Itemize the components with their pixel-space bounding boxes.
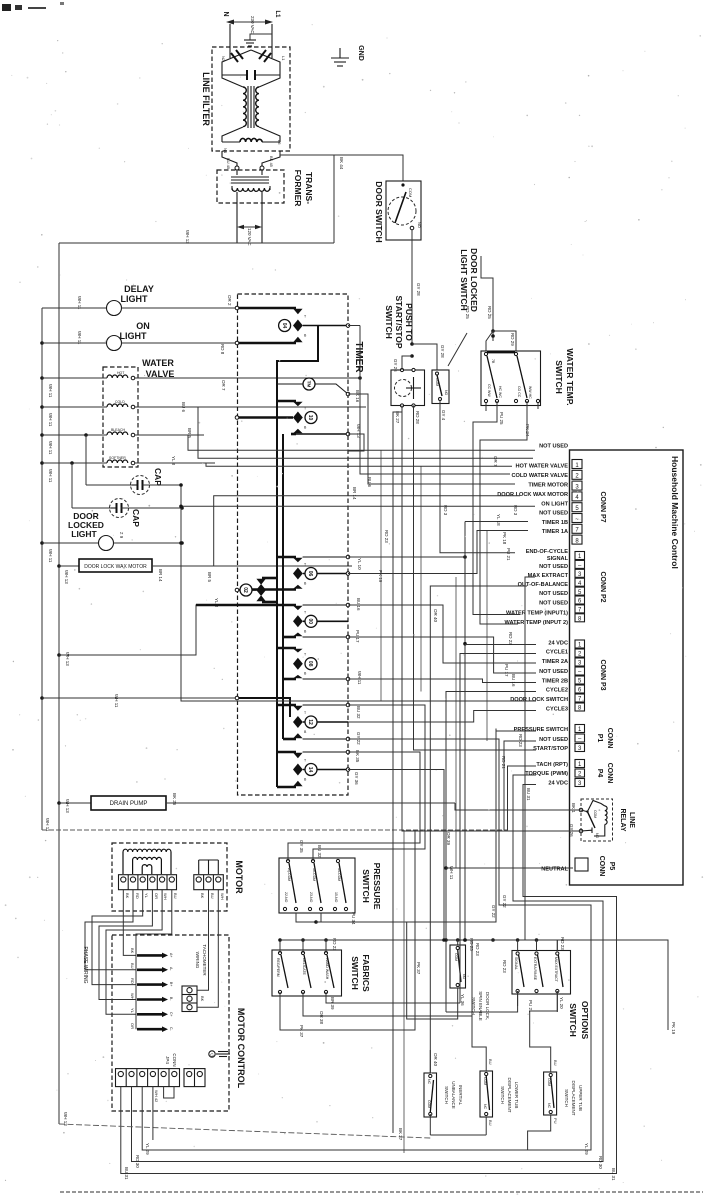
svg-text:P5: P5	[608, 862, 615, 871]
svg-text:YL: YL	[144, 893, 149, 899]
svg-text:24 VDC: 24 VDC	[548, 641, 568, 647]
door locked light switch box	[432, 370, 449, 404]
delay light label	[121, 284, 154, 304]
timer cam contact 04	[237, 308, 348, 361]
water valve dashed enclosure	[103, 367, 138, 467]
svg-text:CYCLE2: CYCLE2	[546, 688, 568, 694]
svg-text:NO: NO	[595, 833, 599, 839]
wire L1 drop	[271, 24, 273, 48]
connector P7 pins	[572, 460, 582, 545]
wire timer motor BK16 to HMC row	[348, 394, 515, 484]
bottom page separator	[60, 1191, 703, 1193]
svg-text:COM: COM	[454, 953, 458, 961]
wire N drop	[229, 24, 231, 48]
svg-text:8: 8	[575, 538, 579, 544]
water valve SOFTNER solenoid	[40, 456, 215, 465]
svg-text:B: B	[304, 629, 307, 633]
svg-text:FABRICS: FABRICS	[361, 954, 371, 992]
connector P5 label	[598, 856, 615, 877]
svg-text:T: T	[304, 653, 307, 657]
wire texture vertical b	[420, 466, 422, 691]
svg-text:NOT USED: NOT USED	[539, 601, 568, 607]
svg-text:DRAIN PUMP: DRAIN PUMP	[110, 801, 148, 807]
svg-text:GY 28: GY 28	[440, 345, 445, 358]
timer cam contact 08	[277, 648, 348, 679]
svg-text:PK 37: PK 37	[299, 1025, 304, 1038]
svg-text:COM: COM	[427, 1100, 431, 1108]
wire WH11 into timer	[40, 696, 237, 700]
svg-text:RD 30: RD 30	[598, 1156, 603, 1169]
svg-text:SOFTNER: SOFTNER	[109, 456, 126, 460]
svg-text:SWITCH: SWITCH	[444, 1086, 449, 1104]
wire label YL 20	[557, 991, 564, 1012]
wire push-switch to line relay GY26	[402, 406, 581, 832]
svg-text:TIMER 2A: TIMER 2A	[542, 659, 568, 665]
push to start/stop switch box	[391, 370, 425, 406]
svg-text:RD 3: RD 3	[513, 505, 518, 516]
svg-text:T: T	[304, 759, 307, 763]
svg-text:120 VAC: 120 VAC	[247, 228, 252, 246]
door switch mechanism	[388, 183, 422, 229]
svg-text:CONN: CONN	[598, 856, 605, 877]
svg-text:NC: NC	[547, 1103, 551, 1109]
node N terminal label	[222, 11, 229, 16]
svg-text:JP4: JP4	[165, 1056, 170, 1064]
wire filter to transformer	[222, 151, 280, 169]
svg-text:SIGNAL: SIGNAL	[547, 556, 569, 562]
svg-text:BK 1: BK 1	[571, 803, 576, 813]
svg-text:NO: NO	[462, 974, 466, 980]
wire texture vertical e	[403, 830, 405, 1153]
wire timer BU32 to pressure switch pole2	[313, 705, 425, 861]
svg-text:START/STOP: START/STOP	[394, 295, 404, 348]
pin BK 45	[260, 156, 274, 170]
svg-text:BU 6: BU 6	[367, 477, 372, 488]
svg-text:DISPLACEMENT: DISPLACEMENT	[507, 1077, 512, 1112]
svg-text:HOT WATER VALVE: HOT WATER VALVE	[515, 464, 568, 470]
svg-text:7B: 7B	[491, 359, 495, 364]
options switch box	[512, 951, 571, 995]
delay light lamp	[42, 301, 237, 316]
svg-text:WH 11: WH 11	[449, 866, 454, 880]
node L1 terminal label	[274, 10, 280, 18]
svg-text:NOT USED: NOT USED	[539, 737, 568, 743]
wire timer GY36 to RD23 bus	[348, 770, 444, 941]
svg-text:24 VDC: 24 VDC	[548, 781, 568, 787]
motor lead wires into motor control	[85, 890, 172, 1029]
wire label BU lower	[486, 1117, 493, 1135]
svg-text:WH 13: WH 13	[64, 570, 69, 584]
wire BK27 dash run	[59, 1124, 430, 1138]
upper tub displacement switch box	[544, 1072, 557, 1115]
door locked light switch label	[459, 248, 479, 312]
svg-text:NOT USED: NOT USED	[539, 669, 568, 675]
door lock spin enable switch box	[450, 945, 466, 988]
wire CYCLE2 row	[444, 692, 536, 1013]
line filter common-mode choke	[222, 75, 280, 128]
capacitor C1	[84, 433, 181, 494]
svg-text:NC: NC	[483, 1104, 487, 1110]
wire label WH 42	[154, 1087, 174, 1103]
svg-text:COM: COM	[483, 1077, 487, 1085]
svg-text:14: 14	[307, 767, 313, 773]
wire CYCLE1 row	[460, 654, 536, 1004]
svg-text:WH: WH	[220, 893, 225, 900]
svg-text:00: 00	[307, 619, 313, 625]
ground (earth) symbol at L1	[244, 34, 272, 46]
svg-text:RD 8: RD 8	[220, 344, 225, 355]
wire hot feed to door switch (BK 44)	[280, 152, 403, 243]
pressure switch label	[361, 863, 382, 910]
door locked light switch leader line	[448, 333, 467, 366]
wire NEUTRAL row	[446, 867, 573, 869]
wire drain pump to line relay BK1	[455, 803, 581, 810]
svg-text:CONN P3: CONN P3	[599, 659, 606, 690]
svg-text:CC WW: CC WW	[487, 384, 491, 397]
water valve HOT solenoid	[40, 371, 360, 380]
wire timer WH11 to TIMER 2B row	[348, 679, 536, 683]
wire OUT-OF-BALANCE row / OR 40 drop	[430, 586, 527, 1073]
svg-text:BU: BU	[210, 893, 215, 899]
svg-text:NOT USED: NOT USED	[539, 511, 568, 517]
svg-text:GY 28: GY 28	[416, 283, 421, 296]
svg-text:UPPER TUB: UPPER TUB	[578, 1085, 583, 1111]
svg-text:LIGHT: LIGHT	[120, 331, 147, 341]
door lock spin enable switch label	[471, 991, 490, 1021]
svg-text:START/STOP: START/STOP	[533, 746, 568, 752]
timer internal bus A	[277, 326, 318, 788]
svg-text:10: 10	[307, 415, 313, 421]
svg-text:WW HC: WW HC	[528, 386, 532, 399]
svg-text:L5: L5	[277, 140, 282, 145]
svg-text:YL: YL	[130, 1008, 135, 1014]
svg-text:B: B	[304, 582, 307, 586]
svg-text:BU: BU	[488, 1120, 493, 1126]
svg-text:BK 27: BK 27	[395, 411, 400, 424]
svg-text:T: T	[304, 610, 307, 614]
pressure switch box	[279, 858, 355, 913]
wire timer YL10 to TIMER 1B row	[348, 522, 528, 559]
wire water temp PK24 to WATER TEMP INPUT 2	[480, 401, 527, 624]
svg-text:SWITCH: SWITCH	[384, 305, 394, 339]
svg-text:NO: NO	[444, 390, 448, 396]
svg-text:NOT USED: NOT USED	[539, 564, 568, 570]
svg-text:WIRING: WIRING	[195, 952, 200, 969]
door locked light label	[68, 511, 104, 539]
transformer label	[293, 170, 314, 207]
motor strip2 wire labels	[200, 893, 225, 900]
svg-text:RD 29: RD 29	[510, 333, 515, 346]
svg-text:PK 37: PK 37	[416, 962, 421, 975]
svg-text:NOT USED: NOT USED	[539, 444, 568, 450]
wire timer GY22 nest loop YL29	[142, 739, 591, 1150]
wire door switch NO down (GY 28)	[411, 230, 413, 344]
svg-text:BR 5: BR 5	[207, 572, 212, 583]
svg-text:COLD WATER VALVE: COLD WATER VALVE	[511, 473, 568, 479]
svg-text:FORMER: FORMER	[293, 170, 303, 207]
svg-text:HC WC: HC WC	[498, 386, 502, 398]
svg-text:B: B	[304, 730, 307, 734]
svg-text:DOOR LOCK WAX MOTOR: DOOR LOCK WAX MOTOR	[84, 564, 147, 570]
svg-text:OR 7: OR 7	[493, 456, 498, 467]
phase winding segment C+	[130, 1008, 173, 1017]
svg-text:21-COM: 21-COM	[287, 868, 291, 881]
inertial unbalance switch box	[424, 1073, 437, 1117]
svg-text:L1: L1	[281, 56, 286, 61]
svg-text:BU 6: BU 6	[181, 402, 186, 413]
push switch pins	[400, 368, 415, 407]
svg-text:BK: BK	[130, 948, 135, 954]
line relay label	[619, 808, 635, 831]
svg-text:≠ 9: ≠ 9	[119, 532, 124, 539]
svg-text:OR: OR	[130, 1023, 135, 1029]
wire junction WH13 tap	[57, 605, 296, 657]
timer cam contact 00	[196, 605, 348, 637]
motor terminal strip 1	[119, 875, 177, 890]
svg-text:WH 13: WH 13	[185, 230, 190, 244]
svg-text:RD 23: RD 23	[502, 960, 507, 973]
svg-text:WATER TEMP (INPUT 2): WATER TEMP (INPUT 2)	[505, 620, 569, 626]
svg-text:NC: NC	[427, 1079, 431, 1085]
svg-text:GY 4: GY 4	[441, 410, 446, 421]
svg-text:ON: ON	[136, 321, 150, 331]
options switch label	[568, 1001, 590, 1040]
wire RD25 riser stub	[481, 256, 493, 303]
svg-text:BK: BK	[125, 893, 130, 899]
timer left edge pins	[235, 306, 239, 700]
wire bleach valve to HMC row	[188, 435, 535, 450]
timer internal bus B	[282, 434, 284, 739]
wire timer BK35 to pressure switch pole1	[288, 752, 420, 861]
wire RD 25 tap dot	[491, 334, 495, 338]
line filter dashed enclosure	[212, 47, 290, 151]
scan artifact top-left	[2, 2, 64, 11]
wire bus x465 vertical	[463, 522, 467, 941]
wire PRESSURE SWITCH row	[496, 730, 536, 732]
svg-text:RD 25: RD 25	[465, 306, 470, 319]
wire options feed dots	[491, 937, 565, 951]
svg-text:RD 23: RD 23	[508, 632, 513, 645]
svg-text:BK 26: BK 26	[172, 793, 177, 806]
svg-text:A-: A-	[169, 967, 173, 971]
svg-text:BK: BK	[200, 996, 205, 1002]
fabrics switch label	[350, 954, 371, 992]
svg-text:OR 2: OR 2	[227, 295, 232, 306]
drain pump	[57, 796, 455, 810]
svg-text:TACH (RPT): TACH (RPT)	[536, 762, 568, 768]
svg-text:14-COM: 14-COM	[337, 868, 341, 881]
upper tub displacement switch label	[564, 1080, 583, 1115]
wire DLSE feed dots	[456, 938, 474, 951]
wire push-switch RD28 to START/STOP row	[414, 406, 537, 751]
conn JP4 label	[165, 1053, 177, 1066]
svg-text:DOOR SWITCH: DOOR SWITCH	[374, 181, 384, 242]
wire JP4 pin4 drop	[152, 1087, 154, 1140]
water valve label	[142, 358, 174, 379]
wire TORQUE nest loop	[132, 775, 604, 1162]
svg-text:EXTRA RINSE: EXTRA RINSE	[533, 957, 537, 981]
wire timer PK19 to TIMER 1A row	[348, 531, 528, 574]
svg-text:SPIN ENABLE: SPIN ENABLE	[478, 991, 483, 1021]
svg-text:YL 29: YL 29	[145, 1143, 150, 1155]
svg-text:DELICATE: DELICATE	[302, 958, 306, 976]
timer right edge pins	[346, 324, 350, 772]
svg-text:LIGHT SWITCH: LIGHT SWITCH	[459, 249, 469, 310]
pin BU 45	[226, 158, 239, 170]
door lock wax motor box	[57, 559, 352, 572]
svg-text:23-NO: 23-NO	[309, 892, 313, 903]
wire left bus WH 11 vertical	[41, 308, 43, 830]
line filter capacitor network	[222, 48, 280, 80]
svg-text:PRESSURE: PRESSURE	[372, 863, 382, 910]
water valve BLEACH solenoid	[40, 428, 204, 437]
svg-text:LINE: LINE	[628, 812, 635, 828]
svg-text:RD 23: RD 23	[384, 530, 389, 543]
svg-text:HOT: HOT	[117, 371, 125, 375]
wire texture vertical c	[455, 577, 457, 868]
svg-text:1: 1	[575, 463, 579, 469]
svg-text:RD 23: RD 23	[560, 937, 565, 950]
svg-text:BU: BU	[130, 963, 135, 969]
svg-text:SWITCH: SWITCH	[500, 1086, 505, 1104]
svg-text:SWITCH: SWITCH	[564, 1089, 569, 1107]
svg-text:RD: RD	[135, 893, 140, 899]
svg-text:CAP: CAP	[153, 468, 163, 486]
motor winding loops	[123, 849, 171, 874]
timer cam contact 12	[237, 698, 348, 739]
svg-text:OR 40: OR 40	[433, 609, 438, 623]
svg-text:12: 12	[307, 719, 313, 725]
water valve COLD solenoid	[40, 400, 366, 409]
svg-text:TIMER 1B: TIMER 1B	[542, 520, 568, 526]
svg-text:RD 3: RD 3	[443, 505, 448, 516]
svg-text:COLD: COLD	[115, 400, 125, 404]
svg-text:T: T	[304, 711, 307, 715]
svg-text:BLEACH: BLEACH	[111, 428, 125, 432]
svg-text:TIMER: TIMER	[353, 341, 364, 373]
svg-text:CO CC: CO CC	[517, 386, 521, 398]
fabrics switch box	[272, 950, 342, 996]
svg-text:RD 30: RD 30	[135, 1155, 140, 1168]
svg-text:TRANS-: TRANS-	[304, 172, 314, 204]
door locked light lamp	[40, 536, 184, 551]
svg-text:YL 8: YL 8	[171, 456, 176, 466]
wire 24 VDC row	[465, 644, 536, 646]
svg-text:MAX EXTRACT: MAX EXTRACT	[528, 573, 569, 579]
svg-text:TORQUE (PWM): TORQUE (PWM)	[525, 771, 568, 777]
svg-text:HAND WASH: HAND WASH	[325, 958, 329, 980]
wire 24VDC nest loop	[121, 785, 617, 1174]
svg-text:SWITCH: SWITCH	[361, 869, 371, 903]
wire inertial to lower tub bottom link	[430, 1134, 486, 1136]
wire RD23 bus to switches	[280, 938, 557, 950]
wire timer BU16 to TIMER 2A row	[348, 605, 536, 663]
svg-text:G: G	[210, 1052, 214, 1057]
svg-text:DISPLACEMENT: DISPLACEMENT	[571, 1080, 576, 1115]
svg-text:BK 27: BK 27	[398, 1128, 403, 1141]
svg-text:WATER: WATER	[142, 358, 174, 368]
connector P1 label	[596, 728, 613, 749]
svg-text:~: ~	[575, 517, 579, 523]
svg-text:PK 18: PK 18	[502, 532, 507, 545]
svg-text:COM: COM	[593, 810, 597, 818]
wire timer GY22 to CYCLE3 row	[348, 711, 536, 723]
svg-text:COM: COM	[408, 188, 413, 197]
wire DLL switch GY4 to END-OF-CYCLE row	[440, 401, 515, 553]
svg-text:REG/PERM: REG/PERM	[276, 958, 280, 977]
svg-text:CONN: CONN	[606, 763, 613, 784]
svg-text:B: B	[304, 672, 307, 676]
connector P1 pins	[575, 725, 585, 753]
svg-text:RD 23: RD 23	[475, 943, 480, 956]
wire water temp switch stubs	[486, 403, 538, 411]
wire 120VAC bus to left (WH 13)	[59, 242, 334, 244]
wire transformer secondary left	[236, 192, 238, 243]
svg-text:COM: COM	[435, 378, 439, 386]
phase winding segment A-	[130, 963, 173, 973]
svg-text:LINE FILTER: LINE FILTER	[201, 72, 211, 126]
wire PK19 right texture	[557, 940, 676, 1035]
wire fabrics BR39 riser	[326, 992, 460, 1003]
conn JP4 terminal strip	[116, 1069, 180, 1087]
svg-text:N4: N4	[223, 148, 228, 154]
wire cold valve to HMC row	[198, 407, 533, 458]
svg-text:WH 11: WH 11	[48, 469, 53, 483]
svg-text:PK 19: PK 19	[671, 1022, 676, 1035]
svg-text:22-NO: 22-NO	[284, 892, 288, 903]
wire wax motor to HMC row	[214, 496, 520, 566]
svg-text:BK 16: BK 16	[355, 390, 360, 403]
svg-text:DOOR LOCK SWITCH: DOOR LOCK SWITCH	[510, 697, 568, 703]
svg-text:7: 7	[575, 528, 579, 534]
svg-text:TIMER 2B: TIMER 2B	[542, 679, 568, 685]
svg-text:WH 42: WH 42	[154, 1090, 159, 1103]
svg-text:04: 04	[281, 323, 287, 329]
svg-text:B+: B+	[169, 982, 173, 986]
motor strip1 wire labels	[125, 893, 178, 900]
svg-text:4: 4	[575, 495, 579, 501]
connector P5 pin	[575, 858, 588, 871]
svg-text:P4: P4	[596, 769, 603, 778]
svg-text:RELAY: RELAY	[619, 808, 626, 831]
wire WH11 bottom run	[42, 829, 508, 831]
svg-text:RD 28: RD 28	[415, 411, 420, 424]
wire options PU21 run	[446, 991, 518, 1012]
svg-text:BU 31: BU 31	[611, 1168, 616, 1181]
wire NOT USED row stub	[504, 741, 536, 830]
svg-text:OR 39: OR 39	[446, 832, 451, 846]
230 VAC dimension arrow	[226, 20, 273, 25]
svg-text:END-OF-CYCLE: END-OF-CYCLE	[526, 549, 569, 555]
svg-text:BK: BK	[200, 893, 205, 899]
svg-text:DELAY: DELAY	[124, 284, 154, 294]
svg-text:YL 29: YL 29	[584, 1143, 589, 1155]
wire MAX EXTRACT row	[525, 577, 535, 940]
svg-text:LOWER TUB: LOWER TUB	[514, 1082, 519, 1109]
svg-text:P1: P1	[596, 734, 603, 743]
svg-text:OPTIONS: OPTIONS	[580, 1001, 590, 1040]
svg-text:PU 21: PU 21	[506, 548, 511, 561]
svg-text:TIMER MOTOR: TIMER MOTOR	[528, 482, 568, 488]
svg-text:BU: BU	[173, 893, 178, 899]
svg-text:INERTIAL: INERTIAL	[458, 1085, 463, 1106]
svg-text:MOTOR: MOTOR	[234, 860, 244, 894]
svg-text:OR 7: OR 7	[221, 380, 226, 391]
svg-text:YL 20: YL 20	[559, 997, 564, 1009]
svg-text:CYCLE1: CYCLE1	[546, 650, 568, 656]
svg-text:TM: TM	[306, 381, 311, 388]
tachometer connector	[182, 890, 218, 1012]
